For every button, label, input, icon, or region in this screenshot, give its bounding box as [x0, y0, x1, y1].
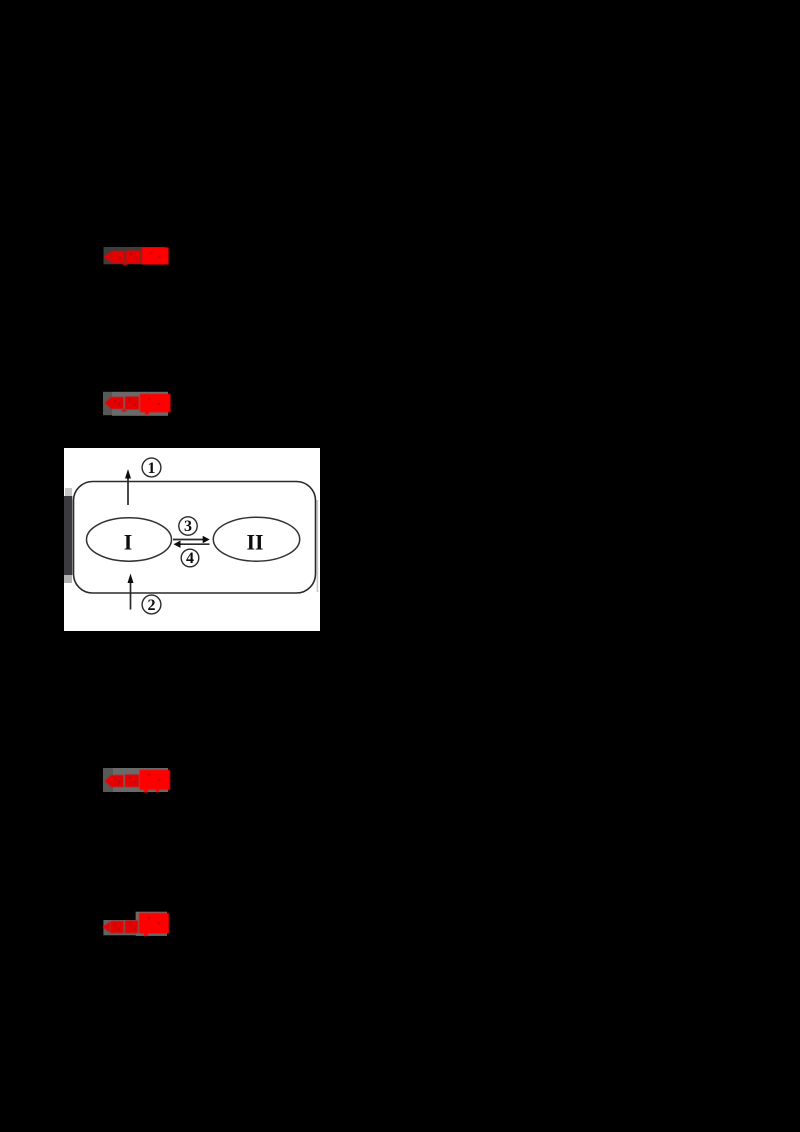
- svg-text:4: 4: [186, 550, 194, 567]
- svg-text:1: 1: [148, 460, 156, 477]
- svg-text:I: I: [124, 529, 133, 554]
- svg-text:3: 3: [184, 518, 192, 535]
- svg-text:2: 2: [148, 597, 156, 614]
- svg-text:II: II: [246, 529, 263, 554]
